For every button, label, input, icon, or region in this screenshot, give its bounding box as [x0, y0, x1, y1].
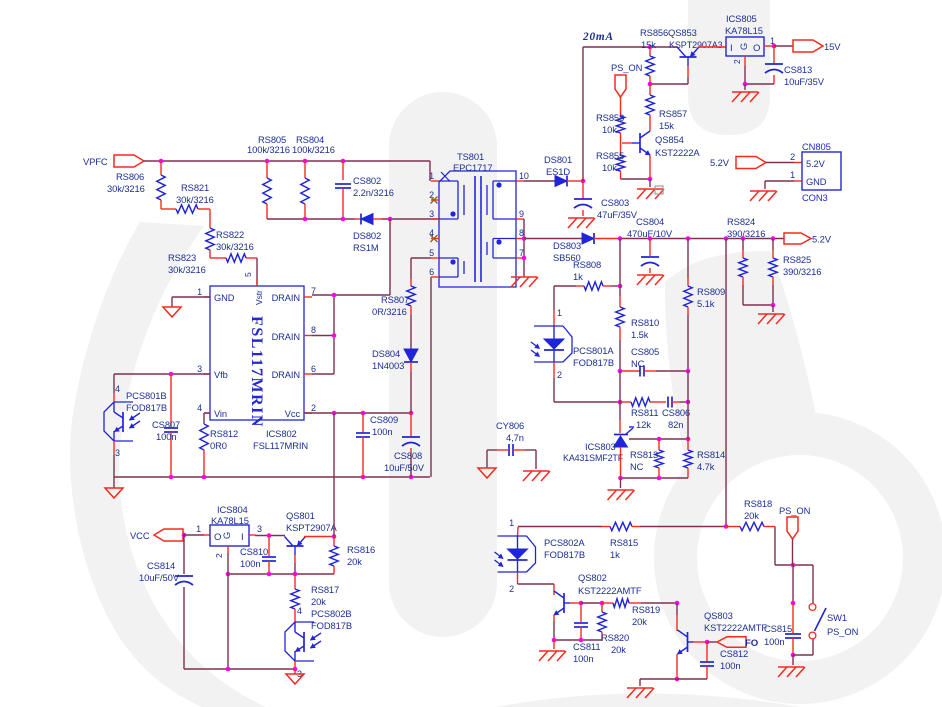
svg-text:CS814: CS814: [147, 560, 175, 571]
ground at RS825: [758, 313, 784, 315]
svg-text:1k: 1k: [573, 271, 583, 282]
svg-text:RS824: RS824: [727, 216, 755, 227]
svg-text:5: 5: [429, 248, 434, 258]
node dots pin3 net: [303, 217, 308, 222]
capacitor CS811: [580, 603, 582, 622]
svg-text:RS806: RS806: [116, 171, 144, 182]
pin stubs ICS804: [249, 534, 255, 536]
svg-text:QS853: QS853: [668, 27, 697, 38]
svg-text:DS802: DS802: [353, 230, 381, 241]
svg-text:9: 9: [519, 209, 524, 219]
shunt regulator ICS803 KA431: [614, 434, 628, 436]
svg-text:1: 1: [557, 308, 562, 318]
svg-text:Vstr: Vstr: [254, 290, 264, 305]
artifact square: [655, 186, 663, 194]
svg-text:20k: 20k: [744, 510, 759, 521]
svg-text:82n: 82n: [668, 419, 683, 430]
ground at CY806 right: [523, 470, 549, 472]
diode DS802: [355, 218, 361, 220]
resistor RS819: [602, 602, 613, 604]
capacitor CY806: [508, 444, 510, 456]
svg-text:4,7n: 4,7n: [506, 432, 524, 443]
svg-text:10: 10: [519, 171, 529, 181]
wire secondary return: [523, 219, 525, 277]
resistor RS808: [554, 285, 576, 287]
svg-text:RS810: RS810: [631, 317, 659, 328]
wire GND pin1 to ground: [172, 296, 210, 298]
svg-text:6: 6: [429, 267, 434, 277]
svg-text:G: G: [739, 43, 750, 50]
resistor RS857: [649, 84, 651, 95]
wire long riser to PS_ON circuit: [725, 239, 727, 527]
resistor RS809: [687, 239, 689, 279]
svg-text:ES1D: ES1D: [546, 166, 570, 177]
node dot ICS805 gnd: [743, 82, 748, 87]
svg-text:TS801: TS801: [457, 151, 484, 162]
svg-text:20mA: 20mA: [582, 31, 614, 43]
capacitor CS802: [342, 161, 344, 180]
svg-text:CS803: CS803: [601, 197, 629, 208]
connector CN805 box: [802, 152, 841, 190]
wire KA431 ref line: [629, 438, 688, 440]
optocoupler PCS802A: [517, 527, 520, 536]
svg-text:Vcc: Vcc: [285, 409, 301, 419]
svg-text:FOD817B: FOD817B: [126, 402, 167, 413]
svg-text:QS801: QS801: [286, 510, 315, 521]
wire ICS804 pin3 to QS801: [255, 535, 285, 537]
svg-text:4.7k: 4.7k: [697, 461, 715, 472]
power flag 15V: [793, 40, 823, 52]
wire QS803 collector riser: [676, 603, 678, 615]
svg-text:RS816: RS816: [347, 544, 375, 555]
node dot VCC: [182, 533, 187, 538]
resistor RS813: [658, 439, 660, 450]
svg-text:30k/3216: 30k/3216: [216, 241, 254, 252]
svg-text:47uF/35V: 47uF/35V: [597, 209, 638, 220]
svg-text:KSPT2907A3: KSPT2907A3: [669, 40, 723, 50]
wire divider mid column: [619, 371, 621, 402]
svg-text:2: 2: [790, 152, 795, 162]
svg-text:ICS805: ICS805: [726, 13, 757, 24]
svg-text:KA78L15: KA78L15: [211, 515, 249, 526]
svg-text:RS820: RS820: [601, 632, 629, 643]
wire pin8 to DS803: [524, 238, 582, 240]
ground at transformer secondary: [511, 276, 537, 278]
wire KA431 cathode riser: [619, 402, 621, 420]
power flag FO: [717, 637, 746, 648]
wire RS808 node column: [618, 284, 623, 289]
wire KA431 anode net: [620, 447, 622, 478]
svg-text:RS812: RS812: [210, 428, 238, 439]
capacitor CS805: [620, 370, 640, 372]
svg-text:NC: NC: [630, 461, 644, 472]
svg-text:CS813: CS813: [784, 64, 812, 75]
svg-text:PCS801A: PCS801A: [573, 345, 614, 356]
node junction dots on VPFC rail: [159, 159, 164, 164]
svg-text:PS_ON: PS_ON: [779, 505, 810, 516]
svg-text:4: 4: [197, 403, 202, 413]
wire CS815 bottom to SW1: [793, 654, 813, 656]
svg-text:2: 2: [509, 584, 514, 594]
svg-text:30k/3216: 30k/3216: [176, 194, 214, 205]
svg-text:20k: 20k: [347, 556, 362, 567]
wire QS854 emitter to ground net: [649, 155, 651, 179]
winding aux pins5-6: [439, 257, 458, 259]
wire source bus: [114, 476, 430, 478]
ground at QS854: [637, 188, 663, 190]
svg-text:2.2n/3216: 2.2n/3216: [353, 187, 394, 198]
svg-text:30k/3216: 30k/3216: [107, 183, 145, 194]
svg-text:RS818: RS818: [744, 498, 772, 509]
svg-text:RS815: RS815: [610, 537, 638, 548]
wire RS818 to switch top: [774, 527, 776, 566]
svg-text:RS856: RS856: [640, 27, 668, 38]
node dot RS856-RS857-base: [648, 82, 653, 87]
resistor RS810: [619, 286, 621, 296]
svg-text:20k: 20k: [611, 644, 626, 655]
wire QS801 base node line: [294, 555, 296, 563]
wire bottom bus: [184, 668, 295, 670]
svg-text:PCS801B: PCS801B: [126, 390, 166, 401]
pin stubs ICS802: [204, 296, 210, 298]
svg-text:DS801: DS801: [544, 154, 572, 165]
wire 20mA rail riser: [582, 47, 584, 181]
winding secondary pins8-7: [493, 238, 516, 240]
resistor RS812: [200, 424, 208, 450]
resistor RS856: [648, 45, 653, 50]
svg-text:5: 5: [243, 272, 253, 277]
wire pin10 to DS801: [524, 180, 555, 182]
wire to ground PCS802B: [294, 669, 296, 674]
resistor RS818: [726, 526, 740, 528]
ground at ICS805: [732, 91, 758, 93]
svg-text:10uF/35V: 10uF/35V: [784, 76, 825, 87]
resistor RS804: [304, 161, 306, 178]
svg-text:8: 8: [311, 325, 316, 335]
svg-text:CS806: CS806: [662, 407, 690, 418]
resistor RS806: [160, 161, 162, 175]
svg-text:100k/3216: 100k/3216: [247, 144, 290, 155]
svg-text:CS808: CS808: [394, 450, 422, 461]
wire Vfb net: [114, 373, 210, 375]
transistor QS854: [639, 133, 641, 153]
svg-text:RS822: RS822: [216, 229, 244, 240]
wire CS813 bottom to pin2: [745, 83, 774, 85]
wire RS815 to riser: [640, 526, 726, 528]
svg-text:3: 3: [429, 209, 434, 219]
ground at CS804: [637, 274, 663, 276]
transformer TS801 EPC1717 outline: [439, 171, 516, 287]
node dots 5.2V rail: [618, 236, 623, 241]
svg-text:CS811: CS811: [573, 641, 600, 652]
svg-text:RS813: RS813: [630, 449, 658, 460]
svg-text:15k: 15k: [641, 39, 656, 50]
capacitor CS814: [183, 535, 185, 574]
svg-text:O: O: [214, 532, 221, 543]
svg-text:470uF/10V: 470uF/10V: [627, 228, 673, 239]
svg-text:G: G: [222, 532, 233, 539]
wire DRAIN net: [312, 294, 390, 296]
svg-text:4: 4: [297, 606, 302, 616]
transistor QS853: [680, 56, 697, 58]
ground at CN805: [750, 190, 776, 192]
svg-text:KA78L15: KA78L15: [725, 25, 763, 36]
wire 5.2V rail: [620, 238, 784, 240]
capacitor CS813: [773, 46, 775, 64]
svg-text:GND: GND: [806, 177, 827, 187]
svg-text:DRAIN: DRAIN: [272, 332, 300, 342]
optocoupler PCS802B: [294, 613, 296, 622]
svg-text:3: 3: [197, 364, 202, 374]
svg-text:RS1M: RS1M: [353, 242, 379, 253]
svg-text:Vin: Vin: [214, 409, 227, 419]
wire TS801 pin6 riser: [430, 277, 432, 477]
svg-text:1: 1: [790, 170, 795, 180]
capacitor CS810: [268, 536, 270, 557]
svg-text:15V: 15V: [824, 41, 841, 52]
wire Vcc net: [304, 412, 411, 414]
svg-text:390/3216: 390/3216: [783, 266, 821, 277]
ground at CY806 left: [478, 468, 496, 478]
svg-text:RS821: RS821: [181, 182, 209, 193]
wire Vin to RS812: [204, 412, 210, 414]
svg-text:20k: 20k: [311, 596, 326, 607]
wire QS802 emitter: [553, 615, 555, 621]
svg-text:1k: 1k: [610, 549, 620, 560]
svg-text:100n: 100n: [573, 653, 593, 664]
svg-text:RS858: RS858: [596, 112, 624, 123]
svg-text:2: 2: [311, 403, 316, 413]
wire to ground QS802: [553, 640, 555, 649]
wire QS853 collector to ICS805: [698, 46, 726, 48]
wire PCS802A pin1 line: [518, 526, 602, 528]
svg-text:100n: 100n: [764, 636, 784, 647]
resistor RS815: [602, 526, 610, 528]
svg-text:1.5k: 1.5k: [631, 329, 649, 340]
wire QS801 emitter to Vcc riser: [304, 536, 334, 538]
svg-text:PCS802A: PCS802A: [544, 537, 585, 548]
ground at source bus: [105, 488, 123, 498]
svg-text:0R0: 0R0: [210, 440, 227, 451]
resistor RS821: [161, 208, 176, 210]
power flag VPFC: [114, 155, 144, 167]
svg-text:CS802: CS802: [353, 175, 381, 186]
capacitor CS815: [785, 633, 801, 635]
svg-text:O: O: [753, 43, 760, 54]
svg-text:DRAIN: DRAIN: [272, 293, 300, 303]
svg-text:KA431SMF2TF: KA431SMF2TF: [563, 453, 624, 463]
svg-text:4: 4: [115, 384, 120, 394]
ground at ICS802 GND: [163, 307, 181, 317]
svg-text:1: 1: [429, 171, 434, 181]
svg-text:5.2V: 5.2V: [812, 234, 832, 245]
diode DS803: [582, 233, 594, 244]
svg-text:390/3216: 390/3216: [727, 228, 765, 239]
wire Vstr pin5 TS801 net: [411, 257, 431, 259]
node dot DS801 output: [581, 179, 586, 184]
optocoupler PCS801B: [114, 401, 133, 403]
svg-text:RS809: RS809: [697, 286, 725, 297]
wire ICS804 pin2 riser: [227, 553, 229, 669]
winding primary pins1-3: [439, 180, 458, 182]
svg-text:100n: 100n: [720, 660, 740, 671]
svg-text:CY806: CY806: [496, 420, 524, 431]
svg-text:DS803: DS803: [553, 240, 581, 251]
transistor QS803: [687, 632, 689, 652]
svg-text:ICS804: ICS804: [217, 504, 248, 515]
wire QS854 collector: [649, 128, 651, 131]
ground at QS803: [627, 687, 653, 689]
wire RS807 to DS804: [410, 315, 412, 349]
svg-text:CN805: CN805: [802, 141, 831, 152]
svg-text:6: 6: [311, 364, 316, 374]
capacitor CS807: [170, 374, 172, 427]
transistor QS802: [563, 593, 565, 613]
wire QS803 emitter net: [676, 654, 678, 679]
wire QS802 base line: [570, 602, 581, 604]
svg-text:RS817: RS817: [311, 584, 339, 595]
ground at CS815: [778, 666, 804, 668]
resistor RS824: [742, 239, 744, 251]
svg-text:CS812: CS812: [720, 648, 748, 659]
svg-text:0R/3216: 0R/3216: [372, 306, 407, 317]
svg-text:100n: 100n: [372, 426, 392, 437]
ground at KA431: [608, 489, 634, 491]
node dot CS815 bottom: [791, 653, 796, 658]
node dot ICS805 out: [772, 44, 777, 49]
capacitor CS808: [410, 413, 412, 437]
svg-text:GND: GND: [214, 293, 235, 303]
wire PS_ON to RS858: [620, 97, 622, 116]
svg-text:RS814: RS814: [697, 449, 725, 460]
svg-text:VCC: VCC: [130, 530, 150, 541]
svg-text:CS810: CS810: [240, 546, 268, 557]
resistor RS825: [772, 239, 774, 251]
svg-text:2: 2: [214, 553, 224, 558]
ground at QS802: [539, 650, 565, 652]
svg-text:NC: NC: [631, 358, 645, 369]
resistor RS823: [210, 257, 226, 259]
wire QS803 base to FO: [693, 641, 707, 643]
svg-text:FOD817B: FOD817B: [311, 620, 352, 631]
svg-text:CS815: CS815: [764, 623, 792, 634]
svg-text:KSPT2907A: KSPT2907A: [286, 522, 338, 533]
svg-text:RS823: RS823: [168, 252, 196, 263]
svg-text:12k: 12k: [636, 419, 651, 430]
node dots on source bus: [169, 475, 174, 480]
svg-text:FSL117MRIN: FSL117MRIN: [248, 316, 265, 428]
wire bus left end down: [113, 477, 115, 488]
resistor RS855: [616, 155, 624, 171]
optocoupler PCS801A: [553, 286, 555, 310]
svg-text:1: 1: [509, 518, 514, 528]
svg-text:DS804: DS804: [372, 348, 400, 359]
node dots Vcc net: [332, 411, 337, 416]
regulator ICS805 KA78L15: [726, 37, 764, 56]
svg-text:CON3: CON3: [802, 192, 828, 203]
node dots base line: [226, 572, 231, 577]
node dots secondary return: [522, 236, 527, 241]
wire to ground CS815: [792, 655, 794, 665]
capacitor CS804: [649, 239, 651, 257]
wire to CN805 pin2: [766, 162, 794, 164]
svg-text:10k: 10k: [602, 124, 617, 135]
svg-text:100n: 100n: [156, 431, 176, 442]
svg-text:30k/3216: 30k/3216: [168, 264, 206, 275]
diode DS804: [404, 349, 418, 362]
power flag 5.2V to CN805: [736, 157, 766, 169]
capacitor CS812: [706, 642, 708, 661]
svg-text:SW1: SW1: [827, 612, 847, 623]
capacitor CS809: [362, 413, 364, 433]
resistor RS822: [209, 209, 211, 228]
resistor RS858: [616, 116, 624, 133]
wire switch column: [792, 565, 794, 603]
resistor RS820: [601, 603, 603, 612]
node dot RS819 line right: [791, 601, 796, 606]
svg-text:3: 3: [115, 448, 120, 458]
svg-text:CS809: CS809: [370, 414, 398, 425]
pin stubs TS801 right: [516, 180, 524, 182]
svg-text:FOD817B: FOD817B: [544, 549, 585, 560]
svg-text:PS_ON: PS_ON: [827, 626, 858, 637]
diode DS801: [555, 176, 567, 187]
svg-text:RS811: RS811: [631, 407, 658, 418]
wire RS819 to QS803: [645, 602, 677, 604]
no-connect X pin2: [431, 197, 438, 204]
resistor RS816: [333, 537, 335, 547]
svg-text:10uF/50V: 10uF/50V: [384, 462, 425, 473]
power flag VCC: [154, 529, 183, 541]
regulator ICS804 KA78L15: [210, 525, 249, 546]
svg-text:CS807: CS807: [152, 419, 180, 430]
wire RS819 line to switch column: [792, 603, 794, 633]
wire pin3 net: [267, 218, 355, 220]
svg-text:20k: 20k: [632, 616, 647, 627]
svg-text:PS_ON: PS_ON: [611, 62, 642, 73]
svg-text:10k: 10k: [602, 162, 617, 173]
node dots DRAIN net: [332, 293, 337, 298]
wire to ground ICS805: [744, 84, 746, 90]
svg-text:KST2222AMTF: KST2222AMTF: [578, 585, 642, 596]
svg-text:RS825: RS825: [783, 254, 811, 265]
ground at PCS802B: [286, 674, 304, 684]
svg-text:RS808: RS808: [573, 259, 601, 270]
svg-text:RS807: RS807: [381, 294, 409, 305]
svg-text:5.2V: 5.2V: [806, 159, 826, 169]
pin stubs TS801 left: [431, 180, 439, 182]
svg-text:KST2222A: KST2222A: [655, 147, 700, 158]
node dot Vfb-CS807: [169, 372, 174, 377]
wire PCS801B pin3 to bus: [113, 441, 115, 455]
svg-text:5.2V: 5.2V: [710, 157, 730, 168]
svg-text:KST2222AMTF: KST2222AMTF: [704, 623, 767, 633]
svg-text:2: 2: [557, 370, 562, 380]
wire PCS802A pin2 to QS802: [518, 583, 555, 585]
wire VPFC rail: [144, 160, 430, 162]
transformer core: [474, 176, 476, 282]
svg-text:5.1k: 5.1k: [697, 298, 715, 309]
wire QS853 base to RS856 node: [687, 66, 689, 77]
svg-text:10uF/50V: 10uF/50V: [139, 572, 180, 583]
wire DS802 node riser to DRAIN: [389, 219, 391, 295]
node dots QS802 bus: [552, 638, 557, 643]
svg-text:RS855: RS855: [596, 150, 624, 161]
power flag 5.2V rail: [784, 233, 811, 244]
no-connect X pin4: [431, 235, 438, 242]
node dots CS805 line: [618, 369, 623, 374]
wire QS802 emitter bus: [554, 639, 602, 641]
